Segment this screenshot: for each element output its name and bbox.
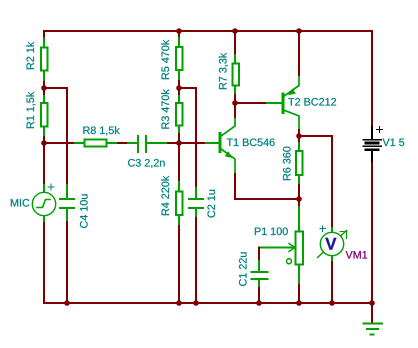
- wire T1 emitter to feedback: [235, 174, 299, 199]
- wire R7 bottom: [234, 95, 236, 103]
- wire C4 bottom: [66, 222, 68, 303]
- wire battery top: [371, 31, 373, 127]
- wire battery bottom: [371, 163, 373, 303]
- wire R5/R3 node to C2 top: [179, 88, 196, 188]
- resistor R6: [296, 141, 303, 185]
- label C2 1u: [207, 190, 215, 218]
- wire T2 collector to node: [298, 130, 300, 136]
- wire T2 base: [235, 102, 267, 104]
- label R2 1k: [26, 42, 34, 69]
- node C4 on rail: [64, 300, 70, 306]
- resistor R1: [41, 96, 48, 137]
- label V: [325, 238, 336, 250]
- label R4 220k: [161, 176, 169, 215]
- resistor R5: [176, 38, 183, 79]
- battery plus sign: [377, 127, 383, 133]
- resistor R4: [176, 182, 183, 226]
- node junction R2/R1: [41, 85, 47, 91]
- node R4 on rail: [176, 300, 182, 306]
- node R5/R3 junction: [176, 85, 182, 91]
- node junction R1 bottom / R8 / MIC: [41, 140, 47, 146]
- wire node to VM1: [299, 136, 332, 228]
- wire R7 top lead: [234, 31, 236, 55]
- ground: [364, 324, 383, 335]
- wire from R1/R2 node to C4 top: [44, 88, 67, 185]
- resistor R7: [233, 55, 240, 95]
- node R7 top on rail: [232, 28, 238, 34]
- wire R5 top lead: [178, 31, 180, 96]
- wire top rail: [44, 30, 372, 32]
- microphone source MIC: [32, 185, 55, 223]
- label R3 470k: [161, 89, 169, 128]
- wire C2 bottom: [195, 218, 197, 303]
- transistor T1: [220, 117, 235, 174]
- node R6 bottom / feedback / P1: [296, 196, 302, 202]
- label R5 470k: [161, 40, 169, 79]
- resistor R2: [41, 39, 48, 81]
- node P1 on rail: [296, 300, 302, 306]
- voltmeter VM1: [318, 228, 348, 262]
- wire C3 to base node: [168, 142, 206, 144]
- MIC plus sign: [48, 184, 54, 190]
- resistor R3: [176, 96, 183, 134]
- label R7 3,3k: [219, 53, 228, 89]
- resistor R8: [75, 140, 118, 147]
- node C2 on rail: [193, 300, 199, 306]
- wire node to R4: [178, 134, 180, 182]
- wire bottom rail: [44, 302, 372, 304]
- label T1 BC546: [227, 138, 275, 146]
- battery V1: [363, 127, 381, 163]
- capacitor C2: [189, 188, 203, 218]
- wire T1 base lead: [206, 142, 219, 144]
- capacitor C4: [60, 185, 74, 222]
- VM1 plus sign: [320, 226, 326, 232]
- node VM1 on rail: [329, 300, 335, 306]
- label V1 5: [383, 139, 405, 147]
- label T2 BC212: [288, 98, 336, 106]
- wire T1 collector to node: [234, 103, 236, 117]
- wire left column top lead: [43, 31, 45, 96]
- potentiometer P1: [259, 207, 303, 285]
- label C4 10u: [80, 194, 88, 228]
- label C3 2,2n: [128, 159, 165, 168]
- node T2 collector / R6 / VM: [296, 133, 302, 139]
- wire VM1 bottom: [331, 262, 333, 303]
- wire ground lead: [371, 303, 373, 322]
- node R5 top on rail: [176, 28, 182, 34]
- label VM1: [346, 251, 368, 258]
- node T2 emitter on rail: [296, 28, 302, 34]
- T1 emitter arrow: [225, 151, 233, 158]
- label P1 100: [255, 227, 288, 235]
- node T1 collector / R7 / T2 base: [232, 100, 238, 106]
- label R1 1,5k: [26, 92, 35, 128]
- wire T2 emitter to rail: [298, 31, 300, 75]
- T2 emitter arrow: [288, 89, 296, 96]
- wire R4 bottom: [178, 226, 180, 303]
- node base junction: [176, 140, 182, 146]
- node battery / ground on rail: [369, 300, 375, 306]
- P1 terminal marker o: [287, 259, 292, 264]
- transistor T2: [283, 75, 299, 130]
- node C1 on rail: [256, 300, 262, 306]
- wire MIC bottom to rail: [43, 223, 45, 303]
- wire C1 bottom: [258, 288, 260, 303]
- label C1 22u: [239, 252, 247, 286]
- wire R8 to C3: [118, 142, 128, 144]
- label R6 360: [283, 147, 291, 181]
- wire R1 node to R8: [44, 142, 75, 144]
- wire MIC top: [43, 137, 45, 185]
- label R8 1,5k: [83, 126, 119, 135]
- label MIC: [11, 199, 30, 207]
- capacitor C1: [252, 261, 268, 288]
- capacitor C3: [128, 136, 168, 152]
- wire pot wiper to C1: [258, 248, 260, 262]
- wire P1 bottom: [298, 285, 300, 303]
